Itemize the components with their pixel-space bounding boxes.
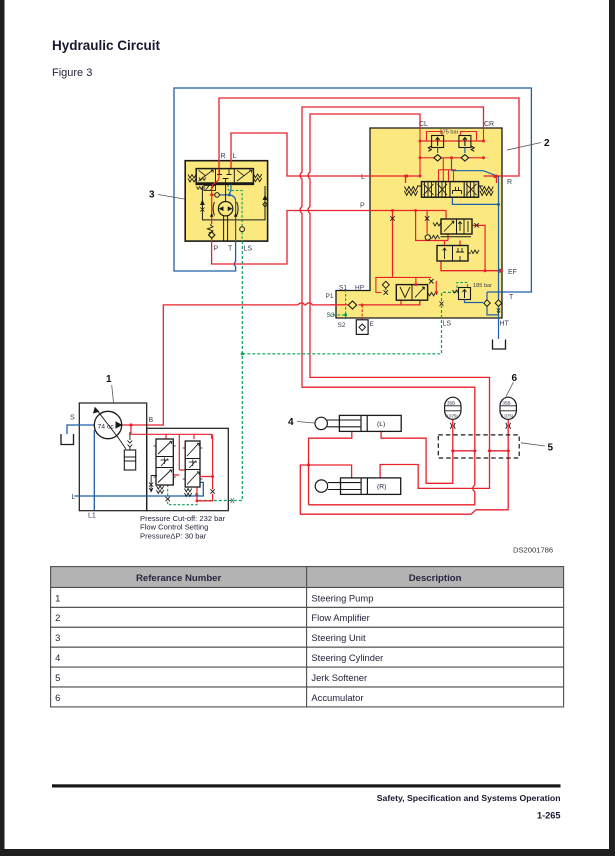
- junction dots steering: [210, 193, 213, 196]
- svg-text:0.075L: 0.075L: [501, 414, 515, 419]
- svg-text:Accumulator: Accumulator: [311, 692, 363, 703]
- wire P1 into box: [330, 304, 348, 306]
- svg-text:(L): (L): [377, 421, 385, 428]
- wire 185bar drain blue: [465, 292, 499, 339]
- wire CL inside top: [419, 128, 421, 176]
- svg-text:Pressure Cut-off: 232 bar: Pressure Cut-off: 232 bar: [140, 514, 226, 523]
- svg-text:1-265: 1-265: [537, 811, 561, 821]
- pump swash arrow: [97, 410, 119, 438]
- blue tank loop wire: [174, 88, 531, 292]
- wire steering LS internal green: [228, 184, 242, 241]
- svg-text:LS: LS: [443, 321, 452, 328]
- wire CR line: [300, 107, 484, 505]
- wire pump S blue: [67, 425, 94, 434]
- svg-text:DS2001786: DS2001786: [513, 546, 553, 555]
- tank flow amp: [493, 340, 506, 350]
- regulator valve B: [183, 441, 203, 496]
- steering check valve + spring: [207, 225, 215, 239]
- E check diamond: [359, 324, 365, 331]
- priority X symbol: [429, 279, 434, 284]
- header row: [51, 567, 564, 588]
- wire LS branch to flow amp: [242, 292, 457, 353]
- wire U3 right loop to EF: [472, 225, 485, 270]
- steering feedback frame: [200, 186, 267, 220]
- tiny spring under right diamond: [497, 309, 500, 314]
- junction dots red: [129, 423, 132, 426]
- svg-text:Flow Amplifier: Flow Amplifier: [311, 612, 369, 623]
- svg-text:Figure 3: Figure 3: [52, 67, 92, 79]
- leader line 5: [521, 443, 545, 446]
- wire steering P to flow amp P: [212, 211, 447, 265]
- EF arrowhead: [499, 268, 504, 273]
- svg-text:P: P: [214, 246, 219, 253]
- svg-text:HP: HP: [355, 285, 364, 292]
- svg-text:B: B: [149, 417, 154, 424]
- svg-text:Safety, Specification and Syst: Safety, Specification and Systems Operat…: [377, 793, 561, 803]
- LS orifice circle: [240, 227, 245, 232]
- pilot spring W: [432, 235, 440, 239]
- svg-text:P1: P1: [326, 293, 334, 300]
- green arrowhead pump: [194, 492, 199, 497]
- svg-text:6: 6: [512, 373, 518, 384]
- svg-text:CL: CL: [419, 121, 428, 128]
- svg-text:(R): (R): [377, 484, 386, 491]
- wire pump B to P1: [122, 300, 420, 425]
- svg-text:R: R: [507, 179, 512, 186]
- svg-text:4: 4: [55, 652, 60, 663]
- servo piston: [117, 432, 136, 470]
- svg-text:T: T: [228, 246, 233, 253]
- wire R spring stub: [496, 176, 498, 183]
- svg-text:L1: L1: [88, 513, 96, 520]
- svg-text:5: 5: [548, 443, 554, 454]
- svg-text:3: 3: [149, 190, 155, 201]
- svg-text:EF: EF: [508, 269, 517, 276]
- relief valve CL 275bar: [428, 136, 443, 152]
- svg-text:Steering Unit: Steering Unit: [311, 632, 366, 643]
- wire L cylinder right to accumulator: [381, 419, 453, 483]
- svg-text:T: T: [509, 294, 514, 301]
- check diamond with X left: [382, 281, 389, 288]
- wire regulator manifold: [131, 425, 212, 475]
- svg-text:35B: 35B: [447, 401, 455, 406]
- footer rule: [52, 784, 561, 787]
- regulator valve A: [149, 439, 176, 493]
- svg-text:S2: S2: [338, 322, 346, 329]
- P1 check diamond: [348, 301, 356, 309]
- flow arrows on lines: [210, 213, 238, 217]
- valve U4 third: [437, 246, 479, 262]
- svg-text:S3: S3: [327, 312, 335, 319]
- svg-text:Steering Pump: Steering Pump: [311, 592, 373, 603]
- reference table: [51, 567, 564, 707]
- wire steering P below check: [211, 238, 213, 241]
- junction dot blue: [497, 203, 500, 206]
- svg-text:S1: S1: [339, 285, 347, 292]
- jerk softener dashed box: [438, 435, 519, 458]
- steering control valve: [188, 169, 262, 191]
- wire HP pilot drop: [392, 211, 394, 278]
- E box: [356, 320, 368, 335]
- footer block: [52, 784, 561, 820]
- check diamonds T: [484, 300, 502, 307]
- steering T blue internal: [219, 184, 235, 241]
- wire L cylinder left loop: [300, 431, 508, 514]
- svg-text:1: 1: [106, 374, 112, 385]
- svg-text:X: X: [230, 498, 235, 505]
- wire priority staple: [376, 277, 436, 292]
- svg-text:4: 4: [288, 417, 294, 428]
- svg-text:2: 2: [55, 612, 60, 623]
- svg-text:5: 5: [55, 672, 60, 683]
- svg-text:PressureΔP: 30 bar: PressureΔP: 30 bar: [140, 531, 207, 540]
- blue relief drains: [438, 148, 499, 297]
- wire relief staples: [427, 132, 477, 142]
- wire L spring stub: [405, 176, 407, 183]
- svg-text:35B: 35B: [502, 401, 510, 406]
- svg-text:0.075L: 0.075L: [445, 414, 459, 419]
- orifice X right of U3: [474, 223, 478, 227]
- steering unit 3 yellow body: [185, 161, 267, 241]
- svg-text:L: L: [361, 174, 365, 181]
- wire steering L to flow amp L: [231, 133, 422, 176]
- svg-text:R: R: [221, 153, 226, 160]
- wire pump L blue: [74, 430, 203, 510]
- svg-text:185 bar: 185 bar: [473, 283, 492, 289]
- pump outer box: [79, 403, 146, 511]
- svg-text:Description: Description: [409, 573, 462, 584]
- steering R red internal: [212, 169, 219, 225]
- wire HP stub: [400, 300, 402, 305]
- wire LS main green: [199, 241, 242, 501]
- svg-text:2: 2: [544, 138, 550, 149]
- wire E red dashed: [361, 305, 363, 334]
- orifice X on x427 branch: [425, 216, 429, 220]
- flow amplifier 2 yellow body: [336, 128, 502, 318]
- svg-text:E: E: [370, 321, 375, 328]
- svg-text:Hydraulic Circuit: Hydraulic Circuit: [52, 38, 161, 53]
- wire green 185bar staple: [457, 283, 468, 293]
- svg-text:S: S: [70, 415, 75, 422]
- LS orifice symbol: [440, 302, 444, 307]
- svg-text:L: L: [233, 153, 237, 160]
- accumulator right: [500, 397, 516, 429]
- accumulator left: [445, 397, 461, 429]
- wire regulator right red: [197, 435, 213, 501]
- wire CL line: [308, 114, 490, 488]
- wire 275bar cross top: [420, 141, 484, 158]
- pilot check circle: [425, 235, 430, 240]
- wire S1 green: [330, 290, 346, 320]
- svg-text:275 bar: 275 bar: [440, 130, 459, 136]
- relief 185bar: [453, 288, 471, 300]
- hydraulic schematic: [122, 88, 532, 514]
- wire valve center stubs: [439, 158, 457, 182]
- leader line 2: [507, 143, 541, 151]
- svg-text:Flow Control Setting: Flow Control Setting: [140, 523, 208, 532]
- valve U3 second: [433, 219, 472, 237]
- svg-text:74 cc: 74 cc: [98, 423, 115, 430]
- priority valve U5: [396, 285, 437, 301]
- svg-text:HT: HT: [500, 321, 510, 328]
- svg-text:1: 1: [55, 592, 60, 603]
- wire P to valve stubs: [416, 211, 460, 246]
- wire steering R to flow amp R: [219, 98, 519, 176]
- leader line 6: [506, 382, 514, 397]
- check valve diamonds top: [434, 155, 469, 161]
- X symbol pump right: [210, 489, 214, 493]
- leader line 1: [112, 385, 114, 403]
- wire pump internal green: [168, 485, 197, 505]
- pump out triangle: [116, 421, 123, 428]
- svg-text:L: L: [72, 494, 76, 501]
- wire jerk softener links: [453, 419, 508, 450]
- gerotor metering unit: [213, 184, 238, 241]
- ball circle node: [215, 193, 220, 198]
- tank S: [61, 434, 74, 445]
- wire EF: [441, 261, 500, 271]
- svg-text:3: 3: [55, 632, 60, 643]
- svg-text:LS: LS: [244, 246, 253, 253]
- svg-text:CR: CR: [484, 121, 494, 128]
- steering cylinder L: [315, 415, 401, 431]
- orifice X on HP drop: [390, 216, 394, 220]
- steering cylinder R: [315, 478, 401, 495]
- main valve U2: [405, 182, 494, 198]
- regulator box: [147, 428, 229, 510]
- leader line 3: [158, 195, 185, 200]
- wire CR inside top: [483, 128, 485, 141]
- relief valve CR 275bar: [459, 136, 474, 152]
- svg-text:Jerk Softener: Jerk Softener: [311, 672, 367, 683]
- pump caption: [140, 514, 226, 540]
- svg-text:P: P: [360, 203, 365, 210]
- pump circle: [94, 411, 121, 438]
- svg-text:6: 6: [55, 692, 60, 703]
- svg-text:Referance Number: Referance Number: [136, 573, 222, 584]
- leader line 4: [297, 422, 315, 424]
- junction dots green: [241, 313, 347, 355]
- X symbol pump left: [166, 497, 170, 501]
- svg-text:Steering Cylinder: Steering Cylinder: [311, 652, 383, 663]
